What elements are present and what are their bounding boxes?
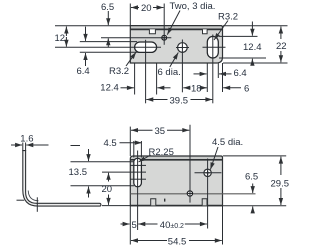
dim 20 front: [102, 205, 130, 207]
leader 4.5 dia: [210, 147, 218, 170]
notch 1: [149, 29, 155, 34]
svg-text:54.5: 54.5: [168, 237, 187, 248]
front bend line (thick): [130, 159, 222, 161]
dim 22 right: [223, 25, 288, 27]
svg-text:4.5 dia.: 4.5 dia.: [212, 137, 243, 148]
label 6 dia leader: [170, 53, 179, 68]
svg-text:20: 20: [102, 184, 113, 195]
svg-text:39.5: 39.5: [170, 95, 189, 106]
dim 6 bottom right: [222, 63, 224, 92]
svg-text:Two, 3 dia.: Two, 3 dia.: [170, 1, 216, 12]
slot left (oblong hole): [135, 42, 157, 52]
svg-text:12: 12: [55, 33, 66, 44]
plate body: [130, 26, 222, 63]
dim 12.4 bottom left: [134, 63, 136, 95]
inner bend radius marks: [28, 191, 38, 201]
svg-text:35: 35: [155, 126, 166, 137]
svg-text:4.5: 4.5: [104, 138, 117, 149]
fold line lower (gray): [130, 193, 255, 195]
dim 29.5 right: [223, 155, 286, 157]
svg-text:40±0.2: 40±0.2: [160, 220, 184, 231]
leader R3.2 right: [214, 21, 228, 41]
tab 1 front: [151, 199, 156, 206]
slot front tick 2 (extends left for dim 20): [102, 171, 146, 173]
slot front center line: [137, 151, 139, 231]
slot front (vertical oblong): [134, 158, 142, 187]
slot right center lines: [203, 46, 226, 48]
svg-text:22: 22: [276, 41, 287, 52]
slot left center lines: [55, 46, 161, 48]
dim 13.5: [71, 161, 135, 163]
svg-text:6.5: 6.5: [101, 2, 114, 13]
hole 6 dia: [178, 43, 188, 53]
hole 4.5 center lines: [195, 172, 222, 174]
leader R3.2 left: [126, 52, 136, 66]
dim 18 bottom: [183, 87, 190, 89]
dim 6.5 front right: [252, 184, 254, 194]
dim 6.4 right slot width: [206, 63, 208, 92]
hole 3 dia center lines: [101, 37, 171, 39]
notch 2: [203, 29, 208, 34]
front plate outline: [130, 156, 222, 206]
slot front tick 3: [130, 178, 146, 180]
tab 2 front: [202, 199, 207, 206]
dim 1.6: [22, 143, 24, 152]
hole 3 dia front (on fold line): [187, 191, 192, 196]
dim 6.4 left: [80, 41, 137, 43]
leader Two 3 dia: [167, 11, 180, 35]
hole 6 dia center lines: [176, 47, 189, 49]
bend line (thick): [130, 28, 222, 30]
svg-text:1.6: 1.6: [20, 134, 33, 145]
svg-text:R2.25: R2.25: [149, 147, 174, 158]
svg-text:6: 6: [244, 83, 249, 94]
front bottom edge thick: [130, 205, 222, 207]
svg-text:6.4: 6.4: [234, 68, 247, 79]
dim 12.4 right (slot length): [219, 35, 258, 37]
dim 20 top: [129, 4, 131, 26]
hole 3 dia: [162, 35, 167, 40]
slot right (oblong hole): [207, 36, 218, 58]
svg-text:5: 5: [132, 220, 137, 231]
svg-text:6 dia.: 6 dia.: [158, 67, 181, 78]
svg-text:20: 20: [141, 3, 152, 14]
L bracket section: [23, 151, 101, 207]
svg-text:29.5: 29.5: [271, 178, 290, 189]
hole 3 dia front center line: [189, 125, 191, 203]
dim 12 left: [55, 25, 130, 27]
plate flange band: [130, 26, 222, 30]
slot front tick 1: [130, 164, 146, 166]
svg-text:R3.2: R3.2: [109, 66, 129, 77]
plate front body: [130, 156, 222, 206]
dim 4.5 slot width: [133, 141, 135, 158]
small notch mark on bottom edge: [164, 199, 166, 202]
bend tangent tick horizontal: [17, 199, 25, 201]
svg-text:12.4: 12.4: [100, 83, 119, 94]
plate outline: [130, 26, 222, 63]
dim 40±0.2: [138, 223, 157, 225]
svg-text:6.5: 6.5: [245, 172, 258, 183]
svg-text:6.4: 6.4: [77, 66, 90, 77]
front flange band: [130, 156, 222, 160]
dim 54.5: [129, 206, 131, 245]
dim 35: [129, 127, 131, 156]
svg-text:18: 18: [191, 83, 202, 94]
bend tangent tick vertical: [36, 197, 38, 212]
leader R2.25: [139, 155, 151, 162]
dim 39.5 bottom: [146, 99, 167, 101]
svg-text:13.5: 13.5: [69, 167, 88, 178]
svg-text:12.4: 12.4: [243, 42, 262, 53]
hole 4.5 dia front: [204, 169, 211, 176]
small tick near 13.5: [71, 145, 81, 147]
